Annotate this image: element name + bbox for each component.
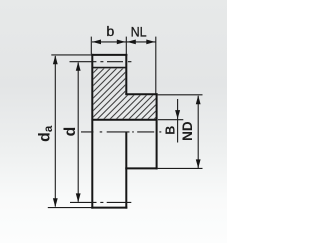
label ND — [180, 121, 195, 141]
arrow b right — [117, 40, 126, 45]
arrow b left — [92, 40, 101, 45]
axis centerline (dash-dot) — [81, 131, 161, 133]
tooth root line — [92, 67, 126, 69]
label B — [163, 126, 177, 135]
arrow NL right — [146, 40, 155, 45]
svg-text:b: b — [106, 24, 114, 40]
left face edge — [91, 54, 93, 209]
arrow NL left — [127, 40, 136, 45]
d dimension line — [77, 63, 79, 202]
dimension d (pitch diameter) — [77, 63, 79, 202]
label da — [37, 125, 55, 142]
da bottom extension line — [48, 207, 92, 209]
label d — [62, 127, 79, 137]
extension line middle (gear right face) — [125, 37, 127, 54]
extension line right (hub right face) — [155, 37, 157, 94]
arrow d bottom — [76, 193, 81, 202]
arrow d top — [76, 62, 81, 71]
dimension da (tip diameter) — [48, 55, 92, 208]
hub bottom edge — [125, 167, 157, 169]
pitch line bottom (dash-dot) — [70, 201, 131, 203]
pitch line top (dash-dot) — [70, 61, 132, 63]
svg-text:ND: ND — [180, 121, 195, 141]
svg-text:B: B — [163, 126, 177, 135]
gear body outline (thick edges) — [91, 54, 157, 209]
right face edge lower — [125, 132, 127, 209]
ND dimension line — [197, 96, 199, 168]
dimension b / NL: dimension line — [91, 37, 156, 94]
arrow da top — [53, 55, 58, 64]
B extension line (bore top) — [158, 119, 183, 121]
hub right edge — [156, 93, 158, 169]
bottom tip edge — [91, 207, 127, 209]
arrow ND bottom — [196, 159, 201, 168]
extension line left (gear left face) — [90, 37, 92, 54]
tip (top) edge — [91, 54, 127, 56]
section hatching of gear rim and hub — [47, 68, 206, 120]
dimension ND (hub diameter) — [158, 95, 203, 169]
ND bottom extension line — [158, 167, 203, 169]
dimension B (bore) — [158, 99, 183, 143]
da dimension line — [54, 56, 56, 207]
hub top edge — [125, 93, 157, 95]
bore line — [92, 119, 157, 121]
arrow da bottom — [53, 198, 58, 207]
svg-text:d: d — [62, 127, 79, 137]
arrow B down — [175, 110, 180, 119]
right face edge upper (rim) — [125, 54, 127, 95]
ND top extension line — [158, 94, 203, 96]
arrow ND top — [196, 95, 201, 104]
da top extension line — [51, 54, 91, 56]
svg-text:NL: NL — [131, 25, 147, 41]
B dimension line — [177, 99, 179, 143]
